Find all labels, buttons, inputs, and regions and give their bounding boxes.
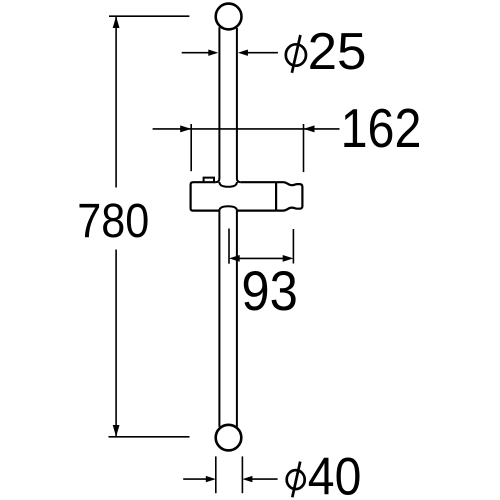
slide bar pole (upper section) [216, 27, 241, 182]
label 93 [241, 260, 298, 322]
phi25 dimension left arrow [182, 50, 219, 56]
bracket release button tab [204, 178, 214, 183]
780 top extension line [109, 15, 189, 17]
top end knob (ball) [216, 4, 242, 30]
slider bracket body [191, 182, 277, 210]
bottom end knob (ball) [216, 425, 242, 451]
780 vertical dimension line (upper) [115, 16, 117, 187]
pole sleeve arc at bracket top [219, 182, 237, 187]
162 dimension line [153, 128, 340, 130]
label 25 [308, 22, 367, 80]
phi40 right extension line [241, 456, 243, 493]
780 arrow down [113, 425, 120, 437]
162 right arrow [304, 125, 315, 132]
label 40 [308, 448, 362, 500]
svg-text:93: 93 [241, 260, 298, 322]
phi40 left extension line [215, 456, 217, 493]
phi40 dimension left arrow [183, 476, 216, 482]
svg-text:40: 40 [308, 448, 362, 500]
phi symbol of phi25 [286, 35, 306, 73]
780 vertical dimension line (lower) [115, 250, 117, 437]
pole collar arch at bracket bottom [219, 206, 237, 210]
162 left extension line [190, 124, 192, 171]
svg-text:162: 162 [341, 98, 422, 159]
phi40 dimension right arrow [242, 476, 277, 482]
label 780 [77, 194, 149, 248]
780 bottom extension line [109, 436, 190, 438]
label 162 [341, 98, 422, 159]
162 right extension line [303, 124, 305, 172]
phi25 dimension right arrow [238, 50, 278, 56]
svg-text:780: 780 [77, 194, 149, 248]
780 arrow up [113, 16, 120, 28]
93 left extension line [228, 229, 230, 264]
svg-text:25: 25 [308, 22, 367, 80]
162 left arrow [180, 125, 191, 132]
93 dimension line with outward arrows [229, 255, 293, 262]
shower head holder [276, 182, 302, 210]
93 right extension line [292, 229, 294, 264]
phi symbol of phi40 [287, 462, 305, 498]
bracket divider line [275, 182, 277, 210]
slide bar pole (lower section) [219, 211, 237, 427]
